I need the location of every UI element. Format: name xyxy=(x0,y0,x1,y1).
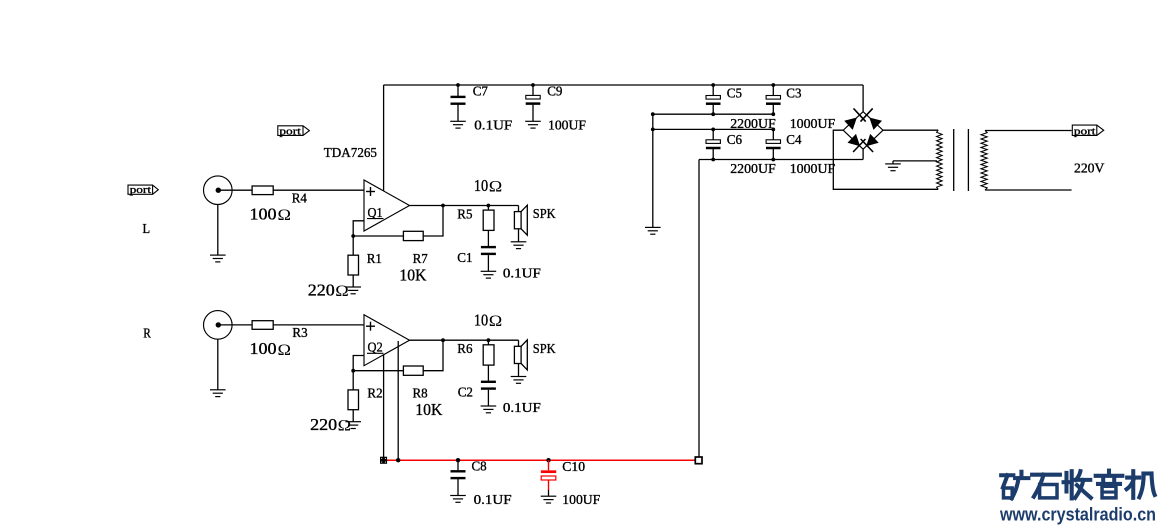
svg-text:Ω: Ω xyxy=(338,418,352,435)
svg-text:C6: C6 xyxy=(727,133,742,148)
svg-text:L: L xyxy=(143,222,151,237)
svg-text:0.1UF: 0.1UF xyxy=(503,401,541,416)
svg-text:220: 220 xyxy=(308,281,335,300)
svg-text:SPK: SPK xyxy=(533,207,556,222)
svg-text:10K: 10K xyxy=(415,400,442,419)
svg-text:R6: R6 xyxy=(457,342,472,357)
svg-text:R1: R1 xyxy=(367,252,382,267)
svg-text:C9: C9 xyxy=(547,84,562,99)
svg-text:220: 220 xyxy=(310,415,337,434)
svg-text:0.1UF: 0.1UF xyxy=(503,267,541,282)
svg-text:100: 100 xyxy=(250,339,277,358)
svg-text:www.crystalradio.cn: www.crystalradio.cn xyxy=(999,504,1156,524)
svg-text:C7: C7 xyxy=(473,84,488,99)
svg-text:0.1UF: 0.1UF xyxy=(474,119,512,134)
svg-text:C1: C1 xyxy=(457,251,472,266)
svg-text:Ω: Ω xyxy=(489,313,503,330)
svg-text:10: 10 xyxy=(474,311,488,330)
svg-text:port: port xyxy=(130,184,152,196)
svg-text:C10: C10 xyxy=(562,460,585,475)
svg-text:C5: C5 xyxy=(727,87,742,102)
svg-text:1000UF: 1000UF xyxy=(790,162,836,177)
svg-text:2200UF: 2200UF xyxy=(730,117,776,132)
svg-text:Ω: Ω xyxy=(335,283,349,300)
svg-text:220V: 220V xyxy=(1074,162,1104,177)
svg-text:Ω: Ω xyxy=(278,207,292,224)
svg-text:100: 100 xyxy=(250,205,277,224)
svg-text:C8: C8 xyxy=(472,460,487,475)
svg-text:port: port xyxy=(279,125,301,137)
svg-text:C3: C3 xyxy=(786,87,801,102)
svg-text:R: R xyxy=(143,327,151,342)
svg-text:100UF: 100UF xyxy=(548,119,586,134)
svg-text:1000UF: 1000UF xyxy=(790,117,836,132)
svg-text:Ω: Ω xyxy=(489,178,503,195)
svg-text:10: 10 xyxy=(474,176,488,195)
svg-text:100UF: 100UF xyxy=(562,493,600,508)
svg-text:R4: R4 xyxy=(292,191,307,206)
svg-text:Ω: Ω xyxy=(278,342,292,359)
svg-text:R5: R5 xyxy=(457,207,472,222)
svg-text:SPK: SPK xyxy=(533,342,556,357)
svg-text:R2: R2 xyxy=(367,387,382,402)
svg-text:0.1UF: 0.1UF xyxy=(474,493,512,508)
svg-text:port: port xyxy=(1074,125,1096,137)
svg-text:C4: C4 xyxy=(786,133,801,148)
svg-text:C2: C2 xyxy=(458,386,473,401)
svg-text:2200UF: 2200UF xyxy=(730,162,776,177)
svg-text:R3: R3 xyxy=(292,326,307,341)
svg-text:TDA7265: TDA7265 xyxy=(324,146,377,161)
svg-text:10K: 10K xyxy=(399,265,426,284)
